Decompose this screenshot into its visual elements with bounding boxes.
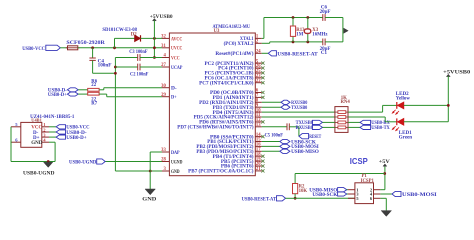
- svg-text:USB0-MOSI: USB0-MOSI: [402, 192, 437, 198]
- svg-text:22: 22: [256, 79, 261, 84]
- svg-text:PC7 (INT4/ICP1/CLK0): PC7 (INT4/ICP1/CLK0): [199, 81, 254, 86]
- svg-text:R7: R7: [91, 101, 97, 106]
- svg-text:21: 21: [256, 167, 261, 172]
- svg-text:USB0-UGND: USB0-UGND: [69, 160, 96, 166]
- svg-text:U3: U3: [214, 29, 220, 34]
- svg-text:AVCC: AVCC: [171, 36, 183, 42]
- svg-text:+5VUSB0: +5VUSB0: [150, 14, 173, 20]
- svg-text:C2 100nF: C2 100nF: [130, 72, 148, 78]
- svg-text:RN4: RN4: [340, 100, 350, 105]
- svg-text:ICSP: ICSP: [350, 157, 368, 166]
- svg-text:Green: Green: [399, 136, 412, 141]
- svg-text:100nF: 100nF: [98, 63, 112, 69]
- svg-text:D-: D-: [171, 86, 177, 92]
- svg-text:UGND: UGND: [171, 159, 183, 165]
- svg-text:UVCC: UVCC: [171, 46, 183, 52]
- svg-text:USB0-D+: USB0-D+: [66, 136, 87, 141]
- svg-text:USB0-UGND: USB0-UGND: [23, 171, 55, 177]
- svg-text:UCAP: UCAP: [171, 65, 183, 71]
- svg-text:13: 13: [256, 123, 261, 128]
- svg-text:GND: GND: [142, 197, 156, 203]
- svg-text:10K: 10K: [299, 189, 308, 194]
- svg-text:USB0-D+: USB0-D+: [48, 93, 67, 98]
- svg-text:SCF050-2920R: SCF050-2920R: [66, 40, 105, 46]
- svg-text:RXUSB0: RXUSB0: [296, 126, 314, 131]
- svg-text:GND: GND: [171, 169, 180, 175]
- svg-text:TXUSB0: TXUSB0: [291, 106, 308, 111]
- svg-text:(PC0) XTAL2: (PC0) XTAL2: [224, 42, 254, 47]
- svg-text:GND: GND: [31, 141, 43, 146]
- svg-text:24: 24: [256, 50, 261, 55]
- svg-text:C1: C1: [321, 51, 328, 56]
- svg-text:+5VUSB0: +5VUSB0: [443, 71, 471, 76]
- svg-text:USB0-SCK: USB0-SCK: [312, 193, 337, 198]
- svg-text:1M: 1M: [296, 33, 303, 38]
- svg-text:USB0-MISO: USB0-MISO: [291, 150, 319, 155]
- svg-text:VCC: VCC: [171, 55, 180, 61]
- svg-text:USB0-RESET-AT: USB0-RESET-AT: [277, 51, 318, 57]
- svg-text:D+: D+: [171, 95, 177, 101]
- svg-text:Yellow: Yellow: [396, 97, 411, 102]
- svg-text:RESET: RESET: [309, 134, 321, 140]
- svg-text:PB7 (PCINT7/OC.0A/OC.1C): PB7 (PCINT7/OC.0A/OC.1C): [188, 170, 254, 175]
- svg-text:20pF: 20pF: [320, 10, 331, 15]
- svg-text:22: 22: [91, 83, 96, 88]
- svg-text:DAP: DAP: [171, 150, 180, 156]
- svg-text:USB0-TX: USB0-TX: [371, 126, 390, 131]
- svg-text:USB0-RESET-AT: USB0-RESET-AT: [242, 196, 277, 202]
- svg-text:USB0-VCC: USB0-VCC: [22, 46, 45, 52]
- svg-text:Reset#(PC1/dW): Reset#(PC1/dW): [215, 52, 253, 57]
- svg-text:C5 100nF: C5 100nF: [265, 132, 283, 138]
- svg-text:PD7 (CTS#/HWB#/AIN6/TO/INT7): PD7 (CTS#/HWB#/AIN6/TO/INT7): [177, 126, 254, 131]
- svg-text:U4B1: U4B1: [31, 118, 42, 123]
- svg-text:C3 100nF: C3 100nF: [129, 49, 147, 55]
- svg-text:16MHz: 16MHz: [312, 33, 328, 38]
